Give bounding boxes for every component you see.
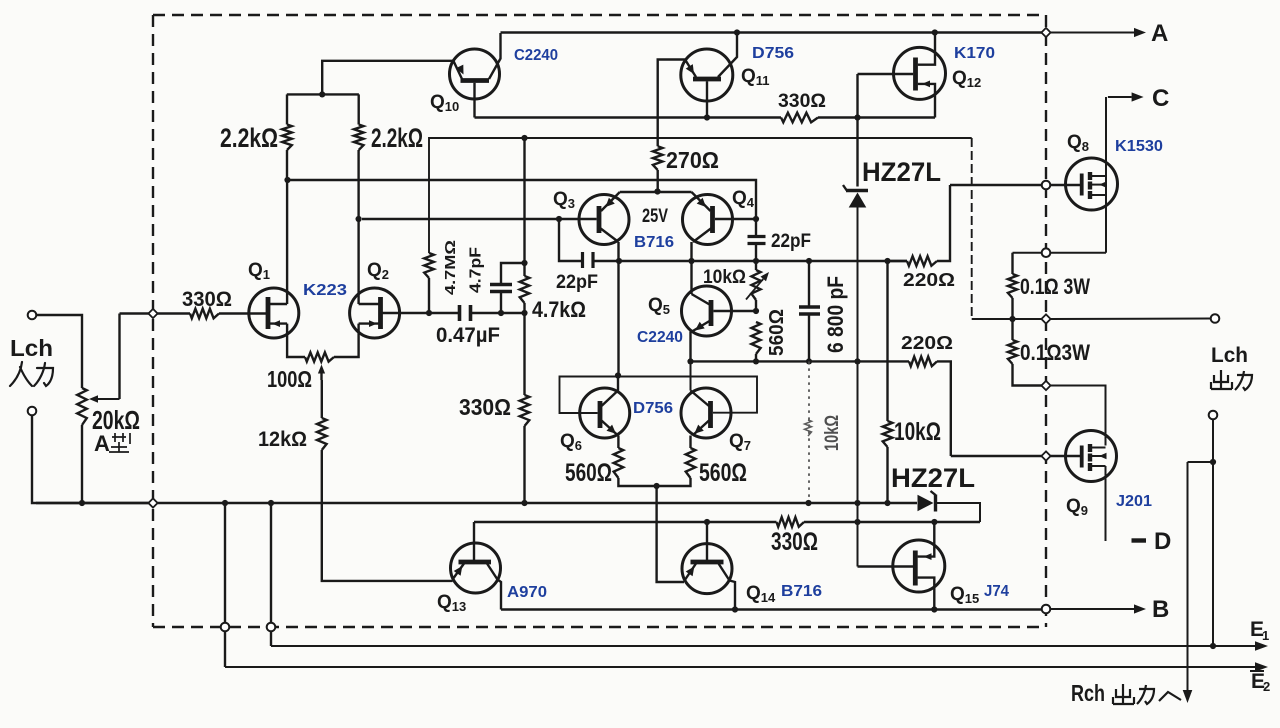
label nyuuryoku (input kanji) (10, 362, 53, 386)
svg-text:100Ω: 100Ω (267, 366, 312, 392)
node Q4 chain (753, 258, 759, 264)
node Q5 emitter line (687, 358, 693, 364)
label Q7 (729, 431, 751, 453)
label Q10 (430, 92, 459, 114)
label C (1152, 85, 1169, 112)
svg-text:2.2kΩ: 2.2kΩ (371, 123, 423, 153)
label 12k ohm (258, 428, 307, 451)
node branch Rch (1210, 459, 1216, 465)
svg-text:330Ω: 330Ω (778, 91, 826, 112)
resistor 330ohm rail (781, 113, 818, 123)
wire Q1 drain up to rail (286, 180, 288, 304)
transistor Q7 (2SD756) (681, 388, 731, 438)
resistor 2.2k ohm left (282, 94, 292, 180)
node Q14 collector (704, 519, 710, 525)
label E1 (1250, 618, 1269, 643)
top rail to A (501, 31, 1042, 33)
line B (501, 608, 1042, 610)
input terminal top (Lch) (28, 311, 37, 320)
wire Q1 source down to 100ohm (287, 324, 305, 357)
wire 330ohm to Q1 gate (219, 312, 268, 314)
node Q14 on B line (732, 606, 738, 612)
resistor 2.2k ohm right (354, 94, 364, 150)
resistor 100ohm source pot (305, 352, 334, 361)
border diamond Q9 gate (1041, 451, 1050, 460)
wire input terminal to pot top (37, 315, 83, 388)
wire diamond to 330ohm (158, 312, 191, 314)
terminal circle speaker out (1211, 314, 1220, 323)
dashed enclosure border (153, 15, 1046, 627)
label J201 (1116, 493, 1152, 510)
svg-text:HZ27L: HZ27L (862, 157, 941, 187)
label 560 ohm VBE (766, 309, 788, 356)
resistor 270 ohm (653, 146, 663, 190)
resistor 12k ohm (317, 418, 327, 450)
label Lch input (10, 335, 53, 361)
label Q8 (1067, 132, 1089, 154)
label 330 bias (771, 528, 818, 556)
node Q2 drain / Q3 base rail (356, 216, 362, 222)
svg-text:Lch: Lch (10, 335, 53, 361)
wire E1 drop (270, 503, 272, 646)
svg-text:B: B (1152, 596, 1169, 623)
label Q9 (1066, 496, 1088, 518)
wire 2.2k tops to Q10 emitter (322, 61, 453, 95)
transistor Q4 (2SB716) (683, 192, 757, 245)
border diamond output (1041, 314, 1050, 323)
label shutsuryoku (output kanji) (1211, 370, 1252, 390)
node Q5 base / divider (753, 308, 759, 314)
transistor Q15 (2SJ74 JFET) (858, 522, 945, 610)
svg-text:2.2kΩ: 2.2kΩ (220, 123, 278, 153)
label K223 (303, 282, 347, 299)
resistor 0.1ohm lower (1008, 340, 1042, 386)
label Q15 (950, 584, 979, 606)
svg-text:10kΩ: 10kΩ (894, 418, 941, 446)
pot wiper arrow (89, 314, 120, 403)
rail Q1 drain to Q4 base (288, 180, 757, 219)
line VAS output (619, 260, 907, 262)
label A970 (507, 584, 547, 601)
wire Q2 gate segments (382, 312, 525, 314)
svg-text:D756: D756 (752, 45, 794, 62)
label C2240 (514, 47, 558, 64)
ground line (158, 502, 918, 504)
node 6800pF bottom (806, 358, 812, 364)
line E1 (271, 641, 1268, 651)
node 4.7M bottom (426, 310, 432, 316)
pot 100ohm wiper arrow (318, 365, 325, 381)
label K1530 (1115, 138, 1163, 155)
svg-text:2: 2 (1263, 679, 1270, 694)
wire Q6 collector up (617, 376, 619, 391)
svg-text:K170: K170 (954, 45, 995, 62)
svg-text:0.1Ω3W: 0.1Ω3W (1020, 340, 1090, 365)
wire Q4 collector down to Q5 (690, 242, 692, 294)
label Q13 (437, 592, 466, 614)
transistor Q11 (2SD756) (658, 33, 737, 147)
label Q5 (648, 295, 670, 317)
line output node (972, 318, 1042, 320)
node Q12 drain on top rail (932, 29, 938, 35)
svg-text:Rch: Rch (1071, 680, 1105, 706)
svg-text:220Ω: 220Ω (903, 270, 955, 290)
node Q15 drain tap (931, 519, 937, 525)
node E1 drop (268, 500, 274, 506)
border circle Q8 source (1042, 248, 1051, 257)
svg-text:330Ω: 330Ω (459, 394, 511, 420)
label HZ27L lower (891, 463, 975, 493)
wire Q8 gate line (950, 184, 1042, 186)
transistor Q10 (2SC2240) (450, 33, 501, 118)
terminal circle Lch out (1209, 411, 1218, 420)
potentiometer 10k ohm VBE (746, 261, 769, 311)
label J74 (984, 583, 1009, 600)
node Q3 collector line (616, 258, 622, 264)
transistor Q12 (2SK170 JFET) (858, 33, 946, 118)
border diamond input (148, 309, 157, 318)
label 220 upper (903, 270, 955, 290)
svg-text:C: C (1152, 85, 1169, 112)
svg-text:D: D (1154, 528, 1171, 555)
label B (1152, 596, 1169, 623)
node zener line on rail (854, 114, 860, 120)
label 4.7pF (468, 247, 485, 293)
wire 220 lower to Q9 gate (951, 455, 1042, 457)
label 560 Q7 (699, 459, 747, 487)
transistor Q14 (2SB716) (682, 522, 735, 610)
svg-text:10kΩ: 10kΩ (822, 415, 843, 451)
svg-text:22pF: 22pF (771, 231, 811, 252)
label 10k ohm (894, 418, 941, 446)
resistor 4.7k ohm (520, 138, 530, 313)
transistor Q2 (2SK223 JFET) (350, 288, 400, 338)
ghost resistor 10k (faint) (805, 361, 812, 503)
svg-text:330Ω: 330Ω (182, 288, 232, 311)
label 4.7M (442, 240, 459, 295)
transistor Q5 (2SC2240) (682, 286, 757, 336)
svg-text:A: A (1151, 20, 1168, 47)
border circle E2 (221, 623, 230, 632)
node 4.7pF top (521, 260, 527, 266)
label Q6 (560, 431, 582, 453)
label Q3 (553, 189, 575, 211)
node Q4 collector line (688, 258, 694, 264)
node 10k ground (884, 500, 890, 506)
terminal arrow B (1051, 604, 1147, 613)
node 330 tail ground (521, 500, 527, 506)
svg-text:4.7kΩ: 4.7kΩ (532, 297, 586, 322)
rail feedback top (429, 138, 972, 319)
resistor 560 ohm VBE (751, 322, 760, 361)
svg-text:B716: B716 (781, 583, 822, 600)
svg-text:J74: J74 (984, 583, 1009, 600)
line Q8 source rail (1013, 252, 1107, 254)
node E2 drop (222, 500, 228, 506)
svg-text:A970: A970 (507, 584, 547, 601)
label B716 (634, 234, 674, 251)
label Lch output (1211, 344, 1248, 367)
svg-text:K223: K223 (303, 282, 347, 299)
transistor Q13 (2SA970) (451, 522, 502, 610)
arrow Rch line (1183, 462, 1193, 703)
border diamond A (1041, 28, 1050, 37)
node 4.7k tap on rail (521, 135, 527, 141)
wire 12k down to Q13 emitter (322, 450, 453, 581)
label 4.7k (532, 297, 586, 322)
svg-text:560Ω: 560Ω (766, 309, 788, 356)
svg-text:J201: J201 (1116, 493, 1152, 510)
node 4.7k bottom (521, 310, 527, 316)
wire wiper down to 12k (321, 380, 323, 418)
rail joining 2.2k tops (287, 93, 359, 95)
wire Q5 emitter down (689, 332, 691, 362)
wire diamond to Q8 gate (1051, 184, 1081, 186)
label Q4 (732, 188, 755, 210)
line lower VAS (691, 360, 910, 362)
capacitor 22pF Q3 (559, 219, 619, 268)
label 270 ohm (666, 147, 719, 173)
wire Q2 drain rail to Q3 base (362, 218, 597, 220)
wire diamond to Q9 gate segment (1051, 455, 1081, 457)
zener diode HZ27L lower (918, 491, 981, 522)
svg-text:A: A (94, 431, 110, 456)
node 2.2k tops (319, 91, 325, 97)
node ghost ground (805, 500, 811, 506)
label Q2 (367, 260, 389, 282)
resistor 220 ohm upper (888, 185, 951, 266)
label 25V (642, 206, 668, 227)
node 560 bottom (753, 358, 759, 364)
resistor 220 ohm lower (909, 357, 951, 456)
wire output to terminal (1051, 318, 1211, 321)
svg-text:C2240: C2240 (637, 329, 683, 346)
svg-text:1: 1 (1262, 628, 1269, 643)
label Q1 (248, 260, 270, 282)
node 4.7pF bottom (498, 310, 504, 316)
label 0.1 ohm lower (1020, 340, 1090, 365)
wire branch to Rch line (1188, 461, 1214, 463)
capacitor 0.47uF (460, 305, 471, 321)
terminal dash D (1132, 538, 1147, 542)
label 330 tail (459, 394, 511, 420)
label ghost 10k (822, 415, 843, 451)
svg-text:6 800 pF: 6 800 pF (823, 276, 848, 353)
wire Q2 drain up to 2.2k (357, 150, 359, 304)
label Q11 (741, 66, 770, 88)
svg-text:4.7MΩ: 4.7MΩ (442, 240, 459, 295)
resistor 330 ohm bias (777, 517, 805, 527)
label 0.1 ohm upper (1020, 274, 1090, 299)
node zener 330 line (854, 519, 860, 525)
svg-text:B716: B716 (634, 234, 674, 251)
wire E2 drop (224, 503, 226, 667)
label 22pF Q3 (556, 272, 598, 293)
label A-type (94, 431, 130, 456)
svg-text:HZ27L: HZ27L (891, 463, 975, 493)
transistor Q3 (2SB716) (579, 192, 629, 245)
label 220 lower (901, 333, 953, 353)
node emitter resistors join (654, 483, 660, 489)
label HZ27L upper (862, 157, 941, 187)
node zener ground (854, 500, 860, 506)
label E2 with overline (1250, 670, 1270, 694)
label 560 Q6 (565, 459, 612, 487)
label 330 ohm rail (778, 91, 826, 112)
svg-text:12kΩ: 12kΩ (258, 428, 307, 451)
node 270ohm to Q3/Q4 rail (654, 188, 660, 194)
node Q11 base on rail (704, 114, 710, 120)
svg-text:4.7pF: 4.7pF (468, 247, 485, 293)
node 22pF tap on Q3 base line (556, 216, 562, 222)
label Rch output-e (1071, 680, 1181, 706)
svg-text:270Ω: 270Ω (666, 147, 719, 173)
wire Q3 collector down (617, 242, 619, 376)
rail Q13 base - zener2 (474, 521, 980, 523)
label 100 ohm (267, 366, 312, 392)
ground line left segment (36, 502, 149, 504)
node 10k (884, 258, 890, 264)
capacitor 6800pF (799, 261, 820, 361)
terminal arrow C (1108, 92, 1144, 101)
line E2 (225, 662, 1268, 672)
potentiometer VR1 20k ohm A-type (77, 388, 87, 425)
label Q12 (952, 68, 981, 90)
wire mirror node to Q14 base (657, 486, 684, 582)
svg-text:560Ω: 560Ω (565, 459, 612, 487)
node on E1 (1210, 643, 1216, 649)
wire Lch out down to E1 (1212, 420, 1214, 647)
wire Q6 base bracket (560, 377, 758, 414)
svg-text:330Ω: 330Ω (771, 528, 818, 556)
svg-text:D756: D756 (633, 400, 673, 417)
label D756 (752, 45, 794, 62)
rail Q10 base - Q12 source (475, 116, 936, 118)
border circle B (1042, 605, 1051, 614)
zener diode HZ27L upper (843, 118, 868, 567)
svg-text:0.47µF: 0.47µF (436, 324, 500, 347)
wire lower rail to Q9 drain (1051, 386, 1106, 446)
label Q14 (746, 583, 776, 605)
wire pot bottom to ground line (81, 425, 83, 503)
label B716 Q14 (781, 583, 822, 600)
label 10k pot (703, 267, 746, 288)
label 20k ohm (92, 405, 140, 435)
svg-text:22pF: 22pF (556, 272, 598, 293)
node Q15 source B line (931, 606, 937, 612)
resistor 10k ohm (883, 261, 893, 503)
node Q4 base / rail (753, 216, 759, 222)
label D756 Q6 (633, 400, 673, 417)
transistor Q8 (2SK1530 MOSFET) (1066, 97, 1118, 253)
border diamond lower rail (1041, 381, 1050, 390)
input terminal bottom (Lch) (28, 407, 37, 416)
wire Q7 collector up (690, 361, 692, 390)
transistor Q1 (2SK223 JFET) (249, 288, 299, 338)
node Q6 collector-base tie (615, 372, 621, 378)
resistor 0.1ohm upper (1008, 253, 1017, 340)
resistor 560 ohm Q7 (657, 436, 696, 487)
node zener tap (854, 358, 860, 364)
wire wiper node to border diamond (120, 312, 149, 314)
svg-text:K1530: K1530 (1115, 138, 1163, 155)
transistor Q6 (2SD756) (580, 388, 630, 438)
node output mid (1009, 316, 1015, 322)
capacitor 4.7pF (490, 263, 525, 313)
label A (1151, 20, 1168, 47)
node Q1 drain rail (284, 177, 290, 183)
terminal arrow A (1051, 28, 1147, 37)
label 2.2k right (371, 123, 423, 153)
border circle Q8 gate (1042, 181, 1051, 190)
svg-text:Lch: Lch (1211, 344, 1248, 367)
resistor 330 ohm tail (520, 313, 530, 503)
transistor Q9 (2SJ201 MOSFET) (1066, 431, 1117, 542)
node Q11 collector on top rail (734, 29, 740, 35)
svg-text:C2240: C2240 (514, 47, 558, 64)
resistor 560 ohm Q6 (614, 436, 657, 487)
rail Q3/Q4 emitters (620, 191, 692, 193)
border diamond ground (148, 498, 157, 507)
wire input terminal bottom down (32, 416, 149, 504)
label D (1154, 528, 1171, 555)
wire Q2 source down to 100ohm (334, 324, 359, 357)
node pot bottom on ground line (79, 500, 85, 506)
label C2240 Q5 (637, 329, 683, 346)
capacitor 22pF Q4 (748, 219, 766, 261)
resistor 4.7M ohm (424, 253, 434, 313)
svg-text:0.1Ω 3W: 0.1Ω 3W (1020, 274, 1090, 299)
label 6800pF (823, 276, 848, 353)
label 2.2k left (220, 123, 278, 153)
label 0.47uF (436, 324, 500, 347)
border circle E1 (267, 623, 276, 632)
label 330 ohm input (182, 288, 232, 311)
label 22pF Q4 (771, 231, 811, 252)
label K170 (954, 45, 995, 62)
svg-text:560Ω: 560Ω (699, 459, 747, 487)
svg-text:220Ω: 220Ω (901, 333, 953, 353)
node 6800pF (806, 258, 812, 264)
svg-text:25V: 25V (642, 206, 668, 227)
resistor 330ohm input (190, 309, 219, 319)
